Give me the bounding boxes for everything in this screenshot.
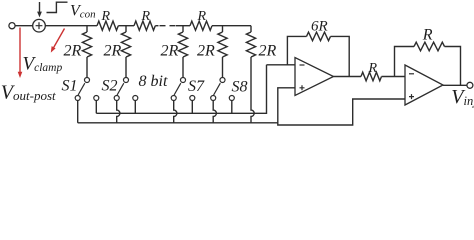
wire switch 2 left throw to lower bus (hops summing bus)	[117, 101, 120, 123]
svg-text:Vcon: Vcon	[70, 3, 96, 21]
switch S7 actuator	[214, 83, 221, 95]
svg-text:S2: S2	[102, 77, 118, 94]
label 8 bit	[139, 73, 168, 90]
svg-text:2R: 2R	[64, 42, 82, 59]
resistor 2R #3	[178, 26, 187, 78]
wire to U2 inverting input	[382, 76, 406, 78]
wire R1 to R2	[118, 25, 134, 27]
label V_con	[70, 3, 96, 21]
summing bus (right throws) rising to op-amp U1 inverting input	[96, 65, 266, 114]
wire U1 output	[334, 76, 362, 78]
svg-text:S7: S7	[188, 78, 205, 95]
svg-text:R: R	[197, 9, 207, 24]
label R	[101, 9, 111, 24]
wire terminal to source	[15, 25, 33, 27]
svg-text:R: R	[368, 61, 378, 76]
label 2R #1	[64, 42, 82, 59]
label S2	[102, 77, 118, 94]
svg-text:R: R	[141, 9, 151, 24]
label R	[141, 9, 151, 24]
switch S7 left throw	[211, 96, 216, 101]
resistor 2R #1	[82, 26, 91, 78]
wire switch 3 left throw to lower bus (hops summing bus)	[174, 101, 177, 123]
label 2R #5	[259, 42, 277, 59]
label 6R	[311, 18, 328, 34]
wire switch 1 right throw to summing bus	[95, 101, 97, 114]
svg-text:2R: 2R	[104, 42, 122, 59]
output terminal	[467, 82, 473, 88]
wire switch 4 left throw to lower bus (hops summing bus)	[213, 101, 216, 123]
resistor 2R #5	[246, 26, 255, 123]
wire U2 output	[443, 84, 467, 86]
switch S2 right throw	[133, 96, 138, 101]
svg-text:R: R	[422, 26, 433, 43]
svg-text:2R: 2R	[161, 42, 179, 59]
lower bus (left throws, reference)	[78, 122, 278, 124]
red annotation arrow to V_clamp (diagonal)	[51, 29, 65, 53]
switch S1 left throw	[75, 96, 80, 101]
switch unlabeled (middle bits) left throw	[171, 96, 176, 101]
label R (series)	[368, 61, 378, 76]
svg-text:S1: S1	[62, 77, 78, 94]
label S7	[188, 78, 205, 95]
label V_out-post	[1, 81, 56, 103]
label R (U2 feedback)	[422, 26, 433, 43]
resistor R (node1-node2)	[97, 21, 118, 30]
feedback resistor 6R	[287, 32, 349, 76]
op-amp U2	[405, 65, 443, 105]
control arrow into source	[37, 2, 42, 17]
switch S7 common contact	[220, 78, 225, 83]
switch unlabeled (middle bits) right throw	[190, 96, 195, 101]
wire switch 3 right throw to summing bus	[191, 101, 193, 114]
red annotation arrow V_clamp (vertical)	[18, 28, 23, 79]
switch S1 right throw	[94, 96, 99, 101]
svg-text:2R: 2R	[197, 42, 215, 59]
label R	[197, 9, 207, 24]
label V_clamp	[23, 53, 63, 74]
label V_inj	[451, 86, 474, 108]
label S8	[232, 78, 248, 95]
svg-text:2R: 2R	[259, 42, 277, 59]
switch S1 actuator	[78, 83, 85, 95]
switch unlabeled (middle bits) actuator	[174, 83, 181, 95]
switch S2 common contact	[124, 78, 129, 83]
switch S7 right throw	[229, 96, 234, 101]
switch S2 left throw	[114, 96, 119, 101]
svg-text:Vinj: Vinj	[451, 86, 474, 108]
wire U1 non-inverting input, down and along bottom to U2 non-inverting input	[278, 88, 405, 125]
op-amp U1	[295, 58, 334, 96]
wire switch 1 left throw to lower bus	[77, 101, 79, 123]
switch S2 actuator	[117, 83, 124, 95]
label 2R #3	[161, 42, 179, 59]
svg-text:R: R	[101, 9, 111, 24]
svg-text:Vout-post: Vout-post	[1, 81, 56, 103]
wire switch 2 right throw to summing bus	[134, 101, 136, 114]
resistor 2R #2	[121, 26, 130, 78]
resistor R (node3-node4)	[190, 21, 212, 30]
input terminal (left, V_out-post node)	[9, 23, 15, 29]
resistor 2R #4	[218, 26, 227, 78]
switch S1 common contact	[85, 78, 90, 83]
resistor R (node2-node3)	[134, 21, 155, 30]
label 2R #2	[104, 42, 122, 59]
dashed continuation wire	[155, 25, 190, 27]
current/voltage source (+ circle)	[33, 19, 46, 32]
svg-text:Vclamp: Vclamp	[23, 53, 63, 74]
svg-text:8 bit: 8 bit	[139, 73, 168, 90]
series resistor R	[361, 72, 382, 81]
svg-text:6R: 6R	[311, 18, 328, 34]
wire source to node1	[45, 25, 97, 27]
switch unlabeled (middle bits) common contact	[181, 78, 186, 83]
step waveform symbol	[47, 2, 68, 12]
wire node4 to node5	[212, 25, 251, 27]
wire U1 inverting input	[267, 64, 296, 66]
wire switch 4 right throw to summing bus	[231, 101, 233, 114]
label 2R #4	[197, 42, 215, 59]
label S1	[62, 77, 78, 94]
feedback resistor R (U2)	[395, 42, 461, 85]
svg-text:S8: S8	[232, 78, 248, 95]
